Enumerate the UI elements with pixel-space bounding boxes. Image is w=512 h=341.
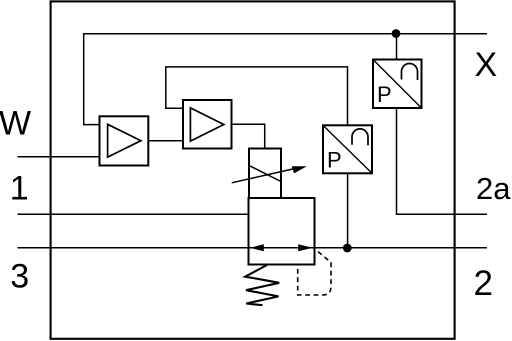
adjustment arrow	[232, 166, 307, 183]
junction dot node 2	[343, 244, 352, 253]
wire X pilot line	[84, 33, 487, 35]
junction dot node X	[392, 29, 401, 38]
proportional pilot solenoid	[249, 149, 281, 199]
wire W input	[18, 156, 100, 158]
valve body	[249, 198, 315, 265]
wire sensor U3 to node 2	[347, 173, 349, 248]
flow arrow right (to port 2)	[298, 244, 313, 251]
wire amplifier A2 output to pilot solenoid	[232, 124, 265, 148]
enclosure box	[51, 1, 455, 338]
flow arrow left (to port 3)	[250, 244, 264, 251]
svg-text:P: P	[377, 82, 392, 107]
wire port 3 to port 2 through valve	[18, 247, 488, 249]
wire node X to sensor U2	[396, 34, 398, 60]
wire outer feedback from node X to amplifier A1	[84, 34, 396, 125]
amplifier A2	[183, 100, 232, 149]
svg-text:2: 2	[474, 264, 493, 303]
wire inner feedback from sensor U3 to amplifier A2	[166, 67, 348, 125]
wire 2a from sensor U2	[397, 108, 488, 215]
pressure sensor U2 (port X)	[373, 60, 422, 109]
wire port 1 to valve	[18, 213, 249, 215]
svg-text:X: X	[475, 46, 498, 84]
svg-text:W: W	[0, 105, 31, 143]
svg-text:P: P	[327, 147, 342, 172]
pressure sensor U3 (output feedback)	[323, 125, 372, 173]
svg-text:2a: 2a	[476, 171, 511, 206]
svg-text:3: 3	[10, 257, 29, 295]
svg-text:1: 1	[10, 170, 29, 208]
dashed pilot feedback line	[298, 250, 331, 296]
amplifier A1	[100, 116, 149, 165]
spring	[245, 265, 279, 305]
wire amplifier A1 output	[148, 140, 183, 142]
